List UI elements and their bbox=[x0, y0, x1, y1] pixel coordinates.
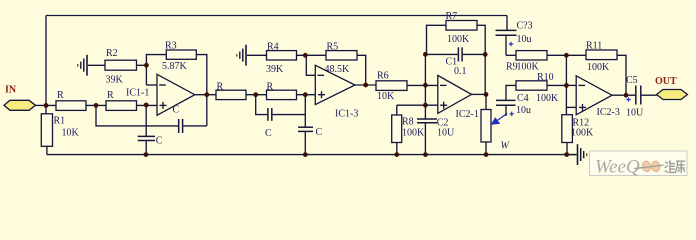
op-amp IC2-1 bbox=[438, 75, 479, 120]
svg-text:R11: R11 bbox=[586, 40, 602, 51]
svg-text:R: R bbox=[107, 90, 114, 101]
wire R8 top lead bbox=[396, 105, 398, 115]
resistor R10 bbox=[516, 81, 547, 90]
wire left bus bbox=[45, 16, 47, 106]
wire stage1 R midpoint drop bbox=[96, 105, 146, 126]
svg-text:C?3: C?3 bbox=[517, 21, 533, 32]
svg-text:0.1: 0.1 bbox=[454, 66, 467, 77]
capacitor C (shunt, stage 2) bbox=[298, 127, 323, 155]
wire IC2-1 plus input row bbox=[397, 104, 438, 106]
wire R10 right lead bbox=[547, 84, 566, 86]
wire bbox=[246, 94, 267, 96]
connector OUT bbox=[657, 90, 688, 100]
resistor R9 bbox=[516, 51, 547, 60]
watermark WeeQoo bbox=[590, 151, 688, 178]
wire R to IC1-3 plus input bbox=[297, 94, 316, 96]
resistor R (second, input row) bbox=[106, 101, 137, 111]
capacitor C (series, stage 2) bbox=[265, 108, 305, 139]
svg-text:C5: C5 bbox=[626, 75, 638, 86]
svg-text:WeeQ: WeeQ bbox=[595, 157, 640, 178]
svg-text:100K: 100K bbox=[571, 127, 594, 138]
wire C1 right riser down to IC2-1 output bbox=[484, 54, 486, 94]
wire between R and R bbox=[86, 104, 106, 106]
wire R9/R11 junction riser down to R12 bbox=[565, 55, 567, 114]
svg-text:R5: R5 bbox=[327, 42, 339, 53]
svg-text:10U: 10U bbox=[626, 107, 644, 118]
wire node A to IC1-1 minus input bbox=[146, 84, 157, 86]
wire IC2-1 output bbox=[472, 93, 487, 95]
svg-text:R6: R6 bbox=[377, 71, 389, 82]
svg-text:IC2-1: IC2-1 bbox=[456, 109, 479, 120]
svg-text:10u: 10u bbox=[517, 34, 532, 45]
wire IC1-3 output bbox=[355, 84, 376, 86]
wire R4 to R5 bbox=[297, 54, 327, 56]
wire top feedback bus bbox=[46, 15, 507, 17]
wire R11 right lead down to output bbox=[617, 55, 626, 95]
capacitor C?3 bbox=[496, 16, 533, 56]
wire R5 right lead down to IC1-3 output bbox=[357, 55, 366, 85]
op-amp IC1-1 bbox=[126, 74, 195, 115]
wire R2 to node A bbox=[137, 64, 147, 66]
svg-text:100K: 100K bbox=[536, 93, 559, 104]
wire R1 top lead bbox=[45, 105, 47, 113]
svg-text:39K: 39K bbox=[266, 64, 284, 75]
wire R6 to IC2-1 minus bbox=[407, 84, 438, 86]
svg-text:C: C bbox=[156, 136, 163, 147]
wiper arrow of W bbox=[491, 114, 507, 125]
resistor R12 bbox=[562, 115, 573, 143]
svg-text:R2: R2 bbox=[106, 48, 118, 59]
op-amp IC1-3 bbox=[315, 65, 358, 119]
wire R9 left lead bbox=[506, 54, 516, 56]
connector IN bbox=[4, 100, 36, 110]
wire R1 bottom lead bbox=[46, 146, 48, 154]
ground G1 bbox=[78, 55, 105, 76]
wire IC2-3 minus input bbox=[566, 84, 576, 86]
capacitor C (shunt, stage 1) bbox=[138, 136, 163, 155]
svg-text:R3: R3 bbox=[165, 41, 177, 52]
svg-text:R1: R1 bbox=[54, 116, 66, 127]
wire IN to bus bbox=[36, 104, 57, 106]
svg-text:100K: 100K bbox=[587, 62, 610, 73]
wire node B drop to IC1-3 minus input bbox=[306, 55, 315, 75]
resistor R (first, input row) bbox=[56, 101, 86, 111]
wire R9 right lead to node C bbox=[547, 54, 566, 56]
capacitor C5 bbox=[626, 75, 657, 119]
svg-text:5.87K: 5.87K bbox=[162, 61, 188, 72]
svg-text:39K: 39K bbox=[106, 75, 124, 86]
wire R7 left loop bbox=[427, 25, 447, 54]
svg-text:IC1-3: IC1-3 bbox=[335, 109, 358, 120]
svg-text:OUT: OUT bbox=[655, 76, 677, 87]
wire R11 left lead bbox=[566, 54, 586, 56]
capacitor C4 bbox=[496, 93, 531, 116]
plus mark C4 bbox=[510, 112, 514, 116]
wire IC2-3 output bbox=[612, 94, 635, 96]
ground G2 bbox=[237, 45, 267, 66]
wire IC2-3 plus input bbox=[566, 106, 576, 108]
resistor R11 bbox=[586, 50, 617, 60]
svg-text:48.5K: 48.5K bbox=[325, 64, 351, 75]
wire stage2 R midpoint drop bbox=[256, 95, 268, 115]
svg-text:10u: 10u bbox=[516, 105, 531, 116]
svg-text:10K: 10K bbox=[377, 91, 395, 102]
wire R7 right loop bbox=[477, 25, 485, 54]
svg-text:100K: 100K bbox=[517, 61, 540, 72]
svg-text:C: C bbox=[173, 105, 180, 116]
svg-text:10K: 10K bbox=[62, 128, 80, 139]
svg-text:IC2-3: IC2-3 bbox=[597, 107, 620, 118]
potentiometer W bbox=[481, 94, 511, 154]
resistor R4 bbox=[267, 51, 297, 60]
svg-text:R7: R7 bbox=[446, 11, 458, 22]
capacitor C2 bbox=[417, 117, 455, 154]
resistor R6 bbox=[376, 81, 407, 91]
svg-text:C: C bbox=[265, 128, 272, 139]
resistor R2 bbox=[105, 60, 137, 70]
op-amp IC2-3 bbox=[576, 76, 620, 118]
wire C1 left riser down through minus and plus nodes to C2 bbox=[424, 54, 426, 119]
svg-text:10U: 10U bbox=[437, 127, 455, 138]
svg-text:C: C bbox=[316, 127, 323, 138]
plus mark C?3 bbox=[509, 42, 513, 46]
svg-text:R: R bbox=[57, 90, 64, 101]
wire R10 left lead down to C4 bbox=[506, 85, 516, 100]
svg-text:R4: R4 bbox=[267, 42, 279, 53]
resistor R (third, second row) bbox=[216, 90, 246, 99]
svg-text:100K: 100K bbox=[447, 34, 470, 45]
resistor R5 bbox=[326, 51, 357, 60]
svg-text:100K: 100K bbox=[402, 127, 425, 138]
svg-text:IN: IN bbox=[5, 85, 17, 96]
wire R12 bottom lead bbox=[566, 143, 568, 155]
resistor R3 bbox=[166, 50, 196, 59]
svg-text:R10: R10 bbox=[537, 72, 554, 83]
svg-text:C4: C4 bbox=[517, 93, 529, 104]
wire IC1-1 output bbox=[195, 94, 216, 96]
resistor R1 bbox=[41, 114, 52, 147]
svg-text:R: R bbox=[217, 82, 224, 93]
resistor R8 bbox=[392, 115, 402, 143]
capacitor C1 bbox=[425, 47, 485, 77]
wire stage2 plus node drop bbox=[304, 95, 306, 128]
resistor R7 bbox=[446, 21, 477, 31]
wire R to IC1-1 plus input bbox=[137, 104, 158, 106]
svg-text:R: R bbox=[267, 82, 274, 93]
capacitor C (series, stage 1) bbox=[146, 105, 207, 134]
svg-text:R8: R8 bbox=[402, 117, 414, 128]
svg-text:IC1-1: IC1-1 bbox=[126, 88, 149, 99]
wire R3 right lead down to output node and series C bbox=[196, 55, 207, 126]
ground G3 bbox=[566, 144, 586, 165]
plus mark C5 bbox=[626, 97, 630, 101]
resistor R (fourth, second row) bbox=[267, 90, 297, 99]
wire stage1 plus node drop bbox=[145, 105, 147, 136]
wire bottom ground bus bbox=[47, 154, 577, 156]
wire R8 bottom lead bbox=[396, 143, 398, 155]
wire node A riser to R3 bbox=[146, 55, 166, 85]
